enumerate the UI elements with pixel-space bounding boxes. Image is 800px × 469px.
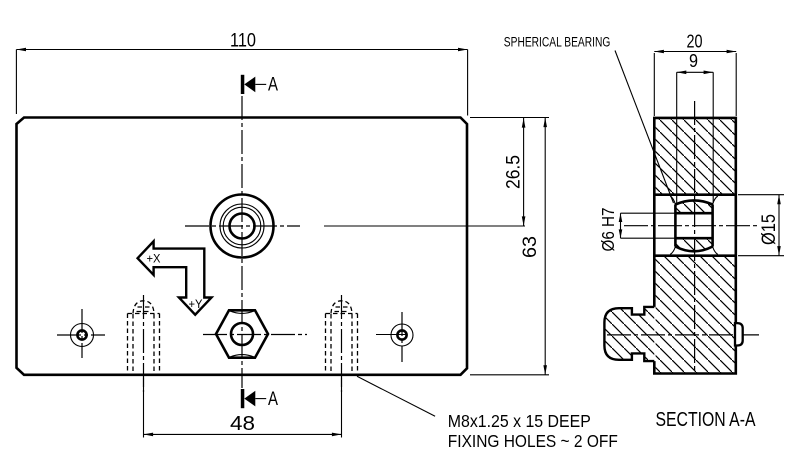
svg-text:Ø6 H7: Ø6 H7	[598, 208, 618, 252]
hidden tapped hole left M8	[128, 295, 160, 392]
XY axis arrow symbol	[138, 241, 212, 314]
leader M8 fixing holes note	[357, 376, 435, 416]
plate outline front view	[17, 118, 468, 375]
bearing bore cavity lines O15	[654, 193, 736, 196]
svg-text:+X: +X	[147, 254, 161, 266]
extension line bearing centre to 26.5 dim	[324, 225, 525, 227]
section view hatched upper block	[656, 119, 735, 193]
hex nut horizontal centerline	[203, 334, 307, 336]
spherical bearing front view circles	[211, 195, 274, 258]
right small hole	[391, 312, 413, 362]
svg-text:Ø15: Ø15	[759, 214, 780, 245]
left small hole	[57, 309, 105, 358]
dimension 26.5	[503, 118, 525, 226]
O15 extension lines	[738, 194, 784, 196]
svg-text:48: 48	[230, 413, 255, 435]
dimension 48	[144, 378, 342, 438]
svg-text:20: 20	[687, 31, 703, 52]
dimension 110	[16, 30, 467, 115]
bore extension lines O6	[621, 212, 676, 214]
dimension 20	[654, 31, 736, 116]
section view hatched hex boss protrusion	[604, 307, 654, 361]
boss axis horizontal centerline	[607, 334, 759, 336]
svg-text:110: 110	[230, 30, 256, 51]
section marker top	[241, 75, 278, 96]
dimension 63	[470, 118, 549, 375]
outer race swage lips	[670, 196, 718, 255]
svg-text:SPHERICAL BEARING: SPHERICAL BEARING	[504, 34, 611, 49]
dimension 9	[677, 50, 714, 74]
svg-text:9: 9	[689, 50, 698, 71]
hidden tapped hole right M8	[326, 295, 358, 392]
extension lines ball width 9	[676, 72, 678, 203]
bearing ball section	[675, 200, 712, 251]
hex nut boss	[216, 310, 268, 357]
svg-text:A: A	[268, 75, 278, 96]
section cut line A-A vertical centerline	[241, 96, 243, 388]
svg-text:63: 63	[520, 236, 541, 258]
svg-text:+Y: +Y	[189, 299, 203, 311]
section block outline	[654, 118, 736, 374]
svg-text:SECTION A-A: SECTION A-A	[656, 409, 757, 431]
retaining pin right side	[735, 323, 743, 345]
section view hatched lower block	[656, 257, 735, 373]
leader spherical bearing	[615, 51, 674, 204]
svg-text:A: A	[268, 389, 278, 410]
bearing horizontal centerline	[185, 225, 300, 227]
dimension O15	[759, 195, 781, 256]
section marker bottom	[241, 389, 278, 410]
svg-text:FIXING HOLES ~ 2 OFF: FIXING HOLES ~ 2 OFF	[448, 431, 618, 451]
bearing axis horizontal centerline	[624, 225, 757, 227]
dimension O6 H7	[598, 208, 623, 252]
svg-text:M8x1.25 x 15 DEEP: M8x1.25 x 15 DEEP	[448, 411, 591, 431]
svg-text:26.5: 26.5	[503, 155, 524, 189]
section vertical centerline	[694, 101, 696, 373]
